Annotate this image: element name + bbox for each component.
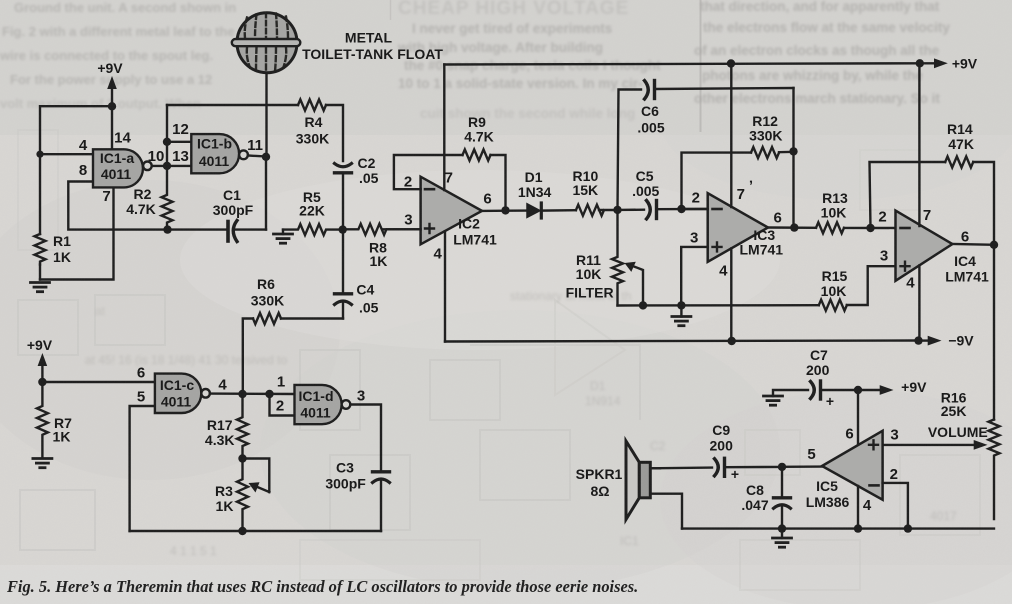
wire pin 5 feedback riser — [130, 406, 155, 531]
node +9V rail right — [916, 59, 924, 67]
R3 wiper arm — [243, 459, 270, 493]
node IC2 output — [501, 206, 509, 214]
bottom rail (amp section) — [682, 527, 994, 529]
wire IC1-c output — [210, 392, 295, 395]
op-amp IC2 — [421, 177, 482, 245]
diode D1 1N34 — [527, 203, 576, 218]
wire R9 to output — [491, 155, 506, 210]
wire IC3 output — [768, 226, 816, 229]
wire IC2 pin4 drop — [444, 231, 446, 341]
node R3 bottom — [238, 527, 246, 535]
wire speaker top terminal — [650, 467, 660, 469]
node IC5 pin6 supply — [854, 386, 862, 394]
node pin 12 — [163, 138, 171, 146]
wire pin 8 feedback — [68, 182, 167, 230]
wire IC3 pin3 — [681, 247, 708, 306]
resistor R2 — [162, 166, 173, 225]
wire +9V rail to R1 top — [40, 106, 112, 234]
IC5 plus mark — [869, 440, 878, 449]
wire to C9 — [727, 466, 782, 469]
node IC4 pin2 — [866, 224, 874, 232]
wire float antenna — [265, 72, 267, 157]
IC2 plus mark — [425, 224, 434, 233]
wire R14 right to output — [973, 162, 994, 245]
wire C5 — [618, 208, 645, 211]
-9V bottom rail — [445, 341, 919, 342]
wire node to C1 — [168, 228, 227, 230]
node C8 on bottom rail — [778, 524, 786, 532]
ground below C8 — [773, 538, 792, 547]
+9V supply arrow (top left) — [107, 76, 117, 106]
IC5 minus mark — [870, 484, 879, 487]
IC4 plus mark — [901, 262, 910, 271]
op-amp IC4 — [896, 211, 953, 281]
ghost heading top-center — [397, 0, 661, 121]
ghost column rule — [700, 0, 702, 132]
node IC3 pin4 on -9V rail — [728, 337, 736, 345]
node IC1-c output / R17 / R6 — [238, 390, 246, 398]
wire IC1-d output to C3 — [350, 405, 381, 471]
potentiometer R3 — [237, 459, 248, 532]
node pin2 on bottom rail — [904, 524, 912, 532]
resistor R9 — [463, 150, 491, 161]
node R11 wiper tie — [639, 301, 647, 309]
faint verso schematic ghosts — [18, 130, 980, 590]
capacitor C6 — [645, 81, 794, 100]
wire R1 bottom to ground node — [39, 265, 41, 280]
wire R12 right — [779, 151, 794, 154]
node R2 bottom — [163, 225, 171, 233]
node R12/C6 — [789, 147, 797, 155]
wire IC2 output — [482, 209, 527, 212]
resistor R15 — [819, 300, 847, 311]
resistor R1 — [35, 234, 46, 265]
node IC3 output — [790, 223, 798, 231]
wire R4 feedback top run — [167, 104, 298, 106]
capacitor C3 — [373, 472, 390, 531]
wire R10 to node A — [599, 209, 618, 211]
wire IC4 pin4 drop — [918, 266, 920, 341]
wire R13 to IC4 pin2 — [844, 227, 896, 230]
wire C6 left branch — [618, 90, 642, 210]
wire IC5 pin6 drop — [857, 390, 859, 446]
wire IC5 pin2 jog — [883, 483, 908, 529]
node IC1-d pin1 — [265, 390, 273, 398]
paper mottling — [0, 0, 1012, 135]
resistor R8 — [343, 224, 424, 235]
node -9V rail right — [914, 336, 922, 344]
resistor R13 — [816, 222, 844, 233]
node pin5/C8/C9 — [778, 463, 786, 471]
potentiometer R11 — [612, 210, 623, 306]
metal toilet-tank float — [232, 13, 300, 73]
speaker SPKR1 — [626, 441, 650, 519]
node A (R10/C5/C6/R11) — [613, 206, 621, 214]
node pin 11 — [262, 153, 270, 161]
node IC3 pin7 on +9V rail — [727, 59, 735, 67]
wire C7 ground stub — [773, 390, 808, 396]
capacitor C7 — [811, 381, 859, 399]
wire IC3 pin2 stub — [682, 208, 708, 210]
resistor R10 — [576, 205, 604, 216]
resistor R6 — [253, 313, 281, 324]
wire R14 feedback loop — [870, 162, 946, 228]
resistor R17 — [237, 394, 248, 458]
NAND gate IC1-d — [295, 385, 342, 424]
+9V supply arrow (lower left) — [38, 353, 48, 382]
wire IC1-a output to node — [152, 165, 192, 167]
resistor R4 — [298, 100, 326, 111]
capacitor C1 — [228, 221, 266, 242]
wire R4 to C2 — [326, 105, 343, 161]
capacitor C5 — [647, 201, 708, 219]
wire IC4 output — [952, 243, 994, 246]
wire IC1-b output — [248, 156, 266, 157]
potentiometer R16 — [989, 420, 1000, 520]
wire pin 2 jog — [270, 394, 295, 416]
node +9V junction — [108, 102, 116, 110]
wire ground stub — [680, 305, 682, 316]
wire R15 to IC4 pin3 — [847, 266, 896, 305]
R11 wiper arm — [634, 267, 643, 306]
resistor R5 — [283, 224, 343, 235]
ground C7 left — [764, 396, 783, 405]
wire IC5 pin5 output — [782, 465, 822, 468]
R16 wiper arrow from IC5 pin3 — [883, 444, 976, 446]
ghost text top-left — [0, 0, 236, 111]
wire IC3 pin7 riser — [730, 63, 732, 207]
wire pin14 of IC1-a — [111, 106, 113, 149]
wire IC3 pin4 drop — [730, 249, 732, 342]
wire IC2 pin7 riser — [443, 65, 445, 191]
wire output down to R16 — [993, 245, 995, 420]
wire IC4 pin7 riser — [918, 63, 920, 226]
capacitor C9 — [650, 458, 724, 476]
scan grain — [0, 0, 1, 1]
node ground tie / IC3 pin3 — [677, 301, 685, 309]
wire C4 to R6 — [281, 317, 343, 319]
IC4 minus mark — [901, 227, 910, 230]
wire oscillator bottom run — [130, 530, 381, 532]
NAND gate IC1-c — [155, 374, 201, 413]
+9V top rail — [444, 63, 920, 64]
-9V arrow — [919, 339, 931, 341]
ground — [31, 283, 50, 292]
wire ground run to pin 7 — [40, 187, 114, 279]
wire C6 right drop to R12/output — [792, 88, 794, 228]
+9V arrow right — [920, 62, 936, 64]
IC3 minus mark — [713, 208, 722, 211]
+9V arrow (amp) — [858, 389, 882, 391]
wire pin 12 — [167, 141, 191, 143]
NAND gate IC1-a — [93, 149, 143, 187]
ground (filter) — [672, 317, 691, 326]
wire ground stub — [282, 230, 284, 234]
resistor R12 — [751, 147, 779, 158]
node IC4 output — [990, 241, 998, 249]
op-amp IC3 — [708, 193, 768, 262]
ground rail (filter section) — [618, 304, 819, 307]
IC3 plus mark — [713, 242, 722, 251]
IC2 minus mark — [425, 188, 434, 191]
capacitor C4 — [335, 230, 352, 319]
wire pin 4 input of IC1-a — [40, 153, 93, 155]
wire IC5 pin4 drop — [857, 486, 859, 529]
wire R6 to IC1-c output node — [243, 319, 253, 395]
node pins 10-13 — [163, 162, 171, 170]
capacitor C2 — [335, 164, 352, 230]
node +9V / R7 / pin6 — [38, 378, 46, 386]
ground R7 — [33, 459, 52, 468]
wire to pin 6 of IC1-c — [42, 381, 154, 383]
node pin4 on bottom rail — [854, 524, 862, 532]
resistor R7 — [37, 382, 48, 458]
op-amp IC5 LM386 (points left) — [822, 431, 883, 500]
resistor R14 — [945, 157, 973, 168]
node pin4 tee — [36, 151, 43, 158]
wire R12 left branch — [682, 153, 752, 209]
wire pins 12/13 riser — [166, 105, 168, 166]
ghost text top-right — [694, 0, 950, 106]
wire ground stub — [781, 529, 783, 538]
wire IC2 pin3 — [383, 228, 420, 230]
wire speaker bottom terminal — [650, 494, 682, 529]
NAND gate IC1-b — [191, 134, 239, 173]
wire IC2 pin2 / R9 feedback loop — [394, 155, 463, 189]
capacitor C8 — [774, 467, 791, 529]
node IC3 pin2 — [677, 205, 685, 213]
wire C1 right riser to pin 11 node — [265, 157, 267, 230]
ground R5 left — [274, 234, 293, 243]
node R17/R3 junction — [238, 454, 246, 462]
node R5/R8/C2/C4 — [339, 225, 347, 233]
